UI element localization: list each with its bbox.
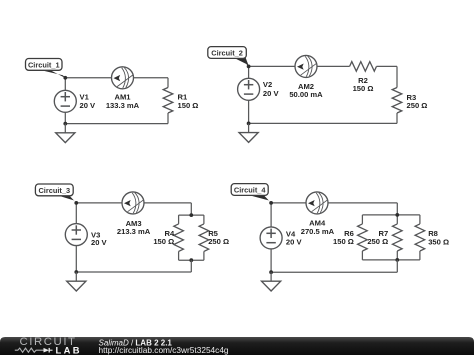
logo diode — [44, 347, 50, 352]
wire R1 branch bottom — [167, 113, 169, 124]
wire R5 branch top — [203, 215, 205, 224]
node top C3 junction — [74, 201, 78, 205]
node bottom C4 junction — [269, 270, 273, 274]
wire R7 branch top — [396, 215, 398, 224]
wire V3 bottom — [75, 246, 77, 272]
resistor R8 — [415, 224, 425, 251]
ammeter AM4 — [306, 192, 328, 214]
voltage source V1 — [54, 90, 76, 112]
wire R4 branch bottom — [178, 251, 180, 260]
voltage source V2 — [238, 78, 260, 100]
wire R8 branch bottom — [419, 251, 421, 260]
wire R8 branch top — [419, 215, 421, 224]
svg-text:250 Ω: 250 Ω — [208, 237, 229, 246]
wire to ground C2 — [248, 123, 250, 132]
ammeter AM2 — [295, 55, 317, 77]
wire V4 bottom — [270, 249, 272, 272]
node bottom C1 junction — [63, 122, 67, 126]
wire to ground C4 — [270, 272, 272, 281]
ammeter AM1 — [112, 67, 134, 89]
wire feed down C4 — [396, 203, 398, 215]
svg-text:Circuit_2: Circuit_2 — [211, 48, 243, 57]
node top C2 junction — [247, 65, 251, 69]
wire R3 branch bottom — [396, 113, 398, 123]
svg-text:V2: V2 — [263, 80, 272, 89]
node top C4 junction — [269, 201, 273, 205]
resistor R1 — [163, 88, 173, 114]
net label flag Circuit_1 — [26, 59, 66, 79]
svg-text:150 Ω: 150 Ω — [333, 237, 354, 246]
resistor R3 — [392, 88, 402, 114]
wire bottom rail C2 — [249, 122, 397, 124]
wire top rail C3 right — [144, 202, 191, 204]
node parallel top C4 — [395, 213, 399, 217]
wire feed down C3 — [190, 203, 192, 215]
svg-text:213.3 mA: 213.3 mA — [117, 227, 151, 236]
wire stem down C4 — [396, 260, 398, 272]
svg-text:150 Ω: 150 Ω — [353, 84, 374, 93]
wire V1 bottom — [64, 112, 66, 123]
node bottom C3 junction — [74, 270, 78, 274]
footer bar — [0, 337, 474, 355]
node bottom C2 junction — [247, 122, 251, 126]
svg-text:20 V: 20 V — [80, 101, 97, 110]
wire bottom rail C3 — [76, 271, 191, 273]
wire V3 top — [75, 203, 77, 224]
resistor R6 — [358, 224, 368, 251]
node top C1 junction — [63, 76, 67, 80]
ground — [67, 281, 86, 291]
wire top rail C2 right — [377, 65, 398, 67]
wire R1 branch top — [167, 78, 169, 88]
wire top junction rail C3 — [179, 214, 204, 216]
svg-text:Circuit_1: Circuit_1 — [28, 60, 60, 69]
wire V2 bottom — [248, 100, 250, 123]
ground — [56, 133, 75, 143]
svg-text:Circuit_3: Circuit_3 — [38, 186, 70, 195]
wire R7 branch bottom — [396, 251, 398, 260]
wire V1 top — [64, 78, 66, 91]
wire to ground C3 — [75, 272, 77, 281]
wire top rail C4 left — [271, 202, 306, 204]
wire top rail C4 right — [328, 202, 397, 204]
voltage source V4 — [260, 227, 282, 249]
wire V4 top — [270, 203, 272, 227]
wire top rail C1 left — [65, 77, 111, 79]
svg-text:LAB: LAB — [56, 344, 82, 355]
resistor R7 — [393, 224, 403, 251]
wire R5 branch bottom — [203, 251, 205, 260]
wire bottom junction rail C3 — [179, 259, 204, 261]
wire V2 top — [248, 66, 250, 78]
svg-text:20 V: 20 V — [263, 89, 280, 98]
wire R3 branch top — [396, 66, 398, 87]
wire R6 branch top — [361, 215, 363, 224]
resistor R4 — [174, 224, 184, 252]
node parallel top C3 — [189, 213, 193, 217]
net label flag Circuit_3 — [35, 184, 76, 203]
resistor R5 — [199, 224, 209, 252]
svg-text:Circuit_4: Circuit_4 — [234, 185, 267, 194]
svg-text:270.5 mA: 270.5 mA — [301, 227, 335, 236]
voltage source V3 — [65, 224, 87, 246]
wire stem down C3 — [190, 260, 192, 272]
resistor R2 — [350, 62, 377, 72]
svg-text:150 Ω: 150 Ω — [178, 101, 199, 110]
net label flag Circuit_4 — [231, 184, 271, 204]
svg-text:250 Ω: 250 Ω — [367, 237, 388, 246]
wire top junction rail C4 — [362, 214, 420, 216]
svg-text:250 Ω: 250 Ω — [407, 101, 428, 110]
node parallel bottom C4 — [395, 258, 399, 262]
logo resistor squiggle — [15, 348, 40, 352]
svg-text:50.00 mA: 50.00 mA — [289, 90, 323, 99]
svg-text:http://circuitlab.com/c3wr5t32: http://circuitlab.com/c3wr5t3254c4g — [99, 344, 229, 354]
svg-text:150 Ω: 150 Ω — [153, 237, 174, 246]
net label flag Circuit_2 — [208, 47, 249, 67]
wire top rail C2 mid — [317, 65, 350, 67]
ammeter AM3 — [122, 192, 144, 214]
svg-text:20 V: 20 V — [286, 238, 303, 247]
wire top rail C2 left — [249, 65, 295, 67]
svg-text:350 Ω: 350 Ω — [428, 237, 449, 246]
wire R4 branch top — [178, 215, 180, 224]
wire top rail C1 right — [134, 77, 169, 79]
wire bottom junction rail C4 — [362, 259, 420, 261]
svg-text:133.3 mA: 133.3 mA — [106, 101, 140, 110]
wire top rail C3 left — [76, 202, 122, 204]
wire bottom rail C4 — [271, 271, 397, 273]
node parallel bottom C3 — [189, 258, 193, 262]
ground — [262, 281, 281, 291]
wire bottom rail C1 — [65, 123, 168, 125]
wire R6 branch bottom — [361, 251, 363, 260]
ground — [239, 133, 258, 143]
svg-text:20 V: 20 V — [91, 238, 108, 247]
wire to ground C1 — [64, 124, 66, 133]
